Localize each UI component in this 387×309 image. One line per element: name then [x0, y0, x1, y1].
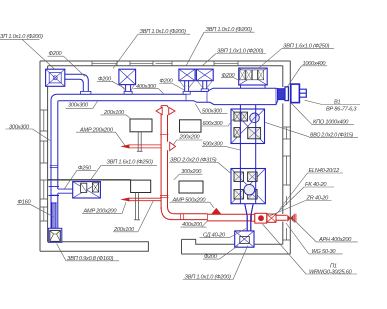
svg-text:Ф200: Ф200	[49, 51, 63, 57]
ceiling diffuser D4	[196, 69, 213, 81]
wall top	[40, 61, 291, 66]
supply branch duct to AMR grille 1	[129, 145, 161, 148]
left riser lower fill	[52, 203, 56, 228]
svg-text:ЗВП 1.0х1.0 (Ф200): ЗВП 1.0х1.0 (Ф200)	[185, 275, 232, 281]
partition wall	[48, 179, 131, 181]
svg-text:ЗВП 0.9х0.8 (Ф160): ЗВП 0.9х0.8 (Ф160)	[67, 256, 114, 262]
exhaust fan V1 body	[291, 84, 300, 103]
duct through-wall piece to fan	[278, 89, 288, 100]
branch arrow up on supply duct	[211, 208, 221, 214]
svg-text:КПО 1000х400: КПО 1000х400	[313, 120, 349, 126]
wall bottom-left	[40, 242, 148, 251]
supply duct flange ticks	[181, 214, 208, 221]
svg-text:АРН 400х200: АРН 400х200	[318, 237, 352, 243]
wall grille inner dampers	[81, 183, 99, 193]
fan motor	[299, 89, 306, 97]
duct transition joint lines	[186, 88, 276, 104]
supply unit filter	[267, 214, 276, 222]
svg-text:FK 40-20: FK 40-20	[305, 182, 327, 188]
supply outlet arrows at riser top	[156, 107, 175, 114]
svg-text:ВВО 2.0х2.0 (Ф315): ВВО 2.0х2.0 (Ф315)	[310, 132, 354, 138]
svg-text:Ф200: Ф200	[204, 254, 218, 260]
svg-text:СД 40-20: СД 40-20	[203, 233, 226, 239]
valve bank connection stubs	[241, 85, 266, 88]
ceiling diffuser D3	[179, 69, 195, 81]
D3 drop duct	[185, 81, 189, 95]
stand leg under B1	[137, 132, 143, 152]
floor diffuser D5 bottom-left	[48, 228, 62, 242]
leader lines	[0, 32, 360, 279]
drop foot D4	[201, 89, 208, 92]
blue drop over red duct (foreground)	[245, 204, 254, 231]
svg-text:Ф160: Ф160	[18, 200, 32, 206]
D4 funnel	[197, 81, 212, 88]
svg-text:ZR 40-20: ZR 40-20	[306, 196, 330, 202]
equipment box B3	[131, 180, 151, 192]
svg-text:Ф200: Ф200	[98, 77, 112, 83]
svg-text:АМР 200х200: АМР 200х200	[79, 127, 114, 133]
drop foot D3	[183, 91, 190, 94]
svg-text:ЗВП 1.0х1.0 (Ф200): ЗВП 1.0х1.0 (Ф200)	[206, 27, 253, 33]
AMR grille arrow 2	[120, 197, 129, 201]
svg-text:300х300: 300х300	[68, 103, 89, 109]
intake damper valve	[287, 215, 293, 223]
wall grille ZVP 1.6x1.0	[73, 182, 101, 198]
svg-text:400х200: 400х200	[182, 222, 203, 228]
riser flange ticks	[160, 134, 169, 197]
svg-text:500х300: 500х300	[202, 108, 223, 114]
svg-text:Ф250: Ф250	[78, 165, 92, 171]
side outlet arrow mid riser	[170, 142, 176, 150]
duct transition below K2	[245, 204, 254, 216]
equipment box B4	[179, 181, 203, 193]
supply duct through wall	[276, 215, 287, 220]
wall right	[283, 61, 291, 254]
svg-text:Ф200: Ф200	[160, 79, 174, 85]
supply branch duct to AMR grille 2	[129, 198, 161, 201]
unit cluster K1	[231, 109, 265, 144]
svg-text:В1: В1	[334, 99, 341, 105]
svg-text:ЗВО 2.0х2.0 (Ф315): ЗВО 2.0х2.0 (Ф315)	[170, 158, 217, 164]
svg-text:300х200: 300х200	[181, 169, 202, 175]
thin drop duct to floor diffuser	[247, 216, 251, 231]
vertical duct to heat units	[240, 105, 255, 204]
svg-text:Ф200: Ф200	[222, 73, 236, 79]
D2 drop duct	[126, 85, 131, 95]
valve bank inner dampers	[240, 70, 264, 80]
AMR grille arrow 1	[120, 144, 129, 148]
duct elbow from D1	[65, 74, 89, 94]
svg-text:ЗВП 1.6х1.0 (Ф250): ЗВП 1.6х1.0 (Ф250)	[107, 160, 154, 166]
svg-text:ВР 86-77-6,3: ВР 86-77-6,3	[326, 107, 357, 113]
K1 inner dampers	[234, 112, 261, 139]
D3 funnel	[180, 81, 195, 88]
window marks left wall	[40, 110, 48, 221]
wall left	[40, 61, 48, 251]
floor diffuser D6 bottom-centre	[235, 231, 254, 247]
drop foot D1 elbow	[81, 91, 91, 94]
D4 drop duct	[203, 81, 207, 92]
unit cluster K2	[231, 169, 265, 204]
svg-text:АМР 500х200: АМР 500х200	[172, 197, 207, 203]
ceiling diffuser D2	[119, 69, 136, 84]
equipment box B2	[180, 120, 202, 132]
flange ticks on left riser	[50, 165, 58, 167]
svg-text:ЗП 1.0х1.0 (Ф200): ЗП 1.0х1.0 (Ф200)	[0, 34, 43, 40]
equipment box B1	[130, 119, 152, 132]
svg-text:WRWG0-30/25,60: WRWG0-30/25,60	[309, 269, 353, 275]
window marks right wall	[283, 127, 291, 240]
window marks top wall	[92, 61, 238, 66]
main supply duct 500x200	[208, 214, 252, 221]
svg-text:ЗВП 1.0х1.0 (Ф200): ЗВП 1.0х1.0 (Ф200)	[217, 49, 264, 55]
stand leg under B3	[134, 193, 140, 220]
svg-text:200х100: 200х100	[113, 227, 135, 233]
supply unit fan P1	[255, 213, 267, 223]
svg-text:600х300: 600х300	[203, 121, 224, 127]
svg-text:ЗВП 1.0х1.0 (Ф200): ЗВП 1.0х1.0 (Ф200)	[140, 29, 187, 35]
branch duct to wall grille	[49, 186, 73, 195]
svg-text:WG 50-30: WG 50-30	[312, 249, 337, 255]
svg-text:АМР 200х200: АМР 200х200	[83, 209, 118, 215]
svg-text:400х300: 400х300	[136, 84, 157, 90]
svg-text:ELN40-20/12: ELN40-20/12	[309, 168, 341, 174]
wall bottom-right	[182, 239, 291, 254]
svg-text:200х200: 200х200	[179, 134, 201, 140]
red elbow to main supply duct	[161, 207, 207, 220]
svg-text:200х100: 200х100	[103, 110, 125, 116]
K2 inner dampers	[234, 172, 257, 199]
supply unit silencer	[252, 214, 255, 221]
svg-text:1000х400: 1000х400	[303, 61, 327, 67]
duct reducer on left riser	[51, 195, 58, 203]
ceiling diffuser D1 top-left	[46, 69, 65, 86]
svg-text:ЗВП 1.6х1.0 (Ф250): ЗВП 1.6х1.0 (Ф250)	[283, 43, 330, 49]
blue exhaust duct main horizontal run	[51, 88, 278, 228]
D2 funnel	[121, 85, 135, 92]
intake end plate	[294, 214, 296, 223]
fan flange plate	[285, 87, 288, 101]
svg-text:500х300: 500х300	[203, 141, 224, 147]
drop foot D2	[124, 91, 132, 94]
valve bank on duct top-right	[239, 68, 268, 85]
red supply riser	[161, 106, 167, 209]
riser top cap	[161, 105, 167, 107]
svg-text:300х300: 300х300	[9, 125, 30, 131]
